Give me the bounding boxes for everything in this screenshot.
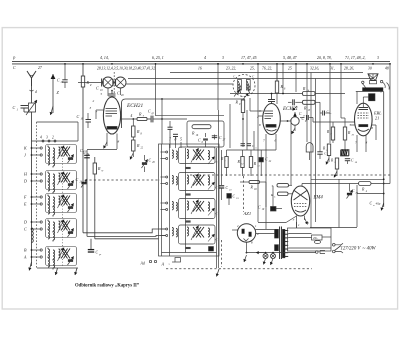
coil box band DC bbox=[46, 219, 77, 238]
voltage selector bbox=[312, 235, 323, 240]
tuning coil band FE bbox=[59, 196, 61, 205]
tube U3 EBL21 envelope bbox=[355, 103, 373, 136]
tube U1 grids bbox=[106, 108, 118, 110]
capacitor C22 bbox=[259, 158, 263, 162]
resistor R14 bbox=[303, 92, 316, 96]
resistor R13 bbox=[249, 157, 252, 168]
ground arrows under coil box bbox=[56, 268, 58, 275]
resistor R20 bbox=[94, 157, 96, 163]
mains switch bbox=[333, 244, 336, 247]
svg-text:♀: ♀ bbox=[168, 262, 170, 266]
capacitor C1 bbox=[21, 105, 29, 107]
IF transformer t1 core bbox=[193, 150, 201, 161]
capacitor dark block IF bbox=[209, 247, 214, 252]
IF transformer t4 winding bbox=[187, 227, 189, 236]
coil pair band DC bbox=[48, 221, 50, 230]
svg-text:EM4: EM4 bbox=[313, 196, 324, 201]
resistor R3 bbox=[241, 157, 244, 168]
svg-text:16: 16 bbox=[198, 66, 202, 70]
trimmer cap band BA bbox=[68, 259, 73, 261]
capacitor Cw bbox=[357, 193, 384, 195]
trimmer cap band KJ bbox=[68, 157, 73, 159]
trimmer cap band FE bbox=[68, 206, 73, 208]
capacitor trim mid bbox=[112, 79, 114, 86]
tube U3 grid cap bbox=[359, 107, 369, 109]
capacitor C17b bbox=[300, 117, 305, 119]
wire top bus line 1 bbox=[12, 60, 390, 62]
capacitor C4 bbox=[241, 143, 246, 145]
dashed chassis bottom bbox=[166, 268, 312, 270]
trimmer cap band DC bbox=[68, 231, 73, 233]
resistor R10a bbox=[331, 127, 334, 140]
svg-text:D: D bbox=[23, 220, 27, 225]
tube U2 cathode arc bbox=[267, 129, 277, 131]
wire main stem bbox=[31, 141, 33, 266]
IF transformer t4 core bbox=[193, 227, 201, 238]
wire route 2 bbox=[37, 267, 78, 269]
tube U5 electrodes bbox=[242, 229, 245, 234]
svg-text:R: R bbox=[136, 129, 140, 134]
svg-text:C: C bbox=[77, 114, 80, 119]
svg-text:A: A bbox=[23, 255, 27, 260]
coil box band KJ bbox=[46, 145, 77, 164]
svg-text:Odbiornik radiowy „Kaprys II”: Odbiornik radiowy „Kaprys II” bbox=[75, 284, 140, 289]
capacitor C17 coupling bbox=[147, 118, 151, 120]
tuning coil band BA bbox=[59, 249, 61, 258]
wire pin8 to column bbox=[87, 149, 117, 151]
IF strip box bbox=[159, 144, 220, 256]
svg-text:F: F bbox=[23, 195, 27, 200]
wire route L1 bbox=[83, 229, 166, 233]
svg-text:4: 4 bbox=[204, 56, 206, 60]
wire gang right to oscillator bbox=[126, 83, 234, 85]
wire heater line 2 bbox=[128, 78, 373, 80]
IF transformer t2 core bbox=[193, 175, 201, 186]
IF transformer t2 winding bbox=[187, 175, 189, 184]
svg-text:K: K bbox=[23, 146, 27, 151]
wire grid feed line bbox=[230, 93, 303, 95]
transformer secondary winding bbox=[282, 229, 285, 258]
ground arrows mains bbox=[264, 259, 266, 265]
tube U2 anode bbox=[266, 125, 276, 128]
ground arrow Z bbox=[52, 74, 54, 113]
wire route L3 bbox=[95, 238, 159, 240]
wire plate lead bbox=[121, 118, 137, 120]
speaker terminals bbox=[362, 81, 364, 83]
hatched capacitor under tube3 bbox=[341, 151, 349, 157]
wire route L2 bbox=[87, 235, 166, 238]
svg-text:d: d bbox=[35, 90, 37, 94]
svg-text:Ad: Ad bbox=[140, 262, 145, 266]
svg-text:3: 3 bbox=[377, 56, 379, 60]
svg-text:5: 5 bbox=[180, 138, 182, 142]
svg-text:AZ1: AZ1 bbox=[243, 211, 252, 216]
tube U5 AZ1 envelope bbox=[237, 224, 255, 242]
antenna bbox=[27, 71, 36, 86]
IF inner boxes bbox=[179, 147, 216, 164]
antenna coil on stem bbox=[32, 228, 34, 242]
resistor R19 bbox=[277, 184, 289, 187]
wire EM4 links bbox=[265, 182, 267, 207]
speaker magnet bar bbox=[363, 88, 384, 91]
resistor R9 bbox=[241, 100, 244, 113]
wire EM4 anode to R4 bbox=[301, 184, 303, 187]
wire tube2 plate bbox=[280, 120, 291, 122]
bus junction dots bbox=[82, 63, 84, 65]
svg-text:R: R bbox=[191, 131, 195, 136]
wire bus drop x330 bbox=[329, 64, 331, 113]
wire right verticals bbox=[306, 64, 308, 142]
ground arrow chassis bbox=[217, 269, 220, 277]
capacitor on stub 8 bbox=[173, 133, 178, 135]
capacitor Ck lamp bbox=[317, 151, 322, 153]
capacitor on stub 7 bbox=[168, 126, 173, 128]
capacitor C11 bbox=[288, 101, 292, 103]
svg-text:2: 2 bbox=[93, 99, 95, 103]
capacitor C6 bbox=[205, 133, 207, 137]
detector box bbox=[187, 121, 224, 147]
resistor R18 bbox=[249, 180, 260, 183]
tuning coil band HD bbox=[59, 173, 61, 182]
svg-text:1: 1 bbox=[224, 159, 225, 162]
mains plug bbox=[316, 251, 319, 254]
svg-text:gr: gr bbox=[99, 253, 101, 256]
tube U1 pin leads bbox=[96, 109, 104, 111]
svg-text:C: C bbox=[117, 91, 120, 96]
transformer primary winding bbox=[275, 229, 279, 238]
tube U4 cross bbox=[294, 190, 308, 200]
coil pair band KJ bbox=[48, 147, 50, 156]
tuning gang C10 rotor link bbox=[113, 72, 115, 94]
resistor Rg bbox=[82, 64, 84, 76]
dashed AVC line bbox=[85, 179, 160, 181]
wire bus drop x283 bbox=[282, 64, 284, 94]
capacitor C5 bbox=[247, 143, 252, 145]
IF transformer t2 secondary bbox=[208, 176, 210, 185]
coil pair band HD bbox=[48, 173, 50, 182]
wire column b bbox=[86, 150, 88, 236]
wire column a bbox=[82, 87, 84, 233]
svg-text:3: 3 bbox=[46, 136, 48, 140]
wire top bus line 2 bbox=[12, 63, 390, 65]
transformer core bbox=[279, 227, 281, 260]
wire box feeds bbox=[161, 99, 163, 144]
dashed chassis line bbox=[190, 174, 390, 176]
IF switch contacts bbox=[161, 151, 166, 153]
svg-text:ECH21: ECH21 bbox=[126, 103, 143, 109]
coil pair band FE bbox=[48, 196, 50, 205]
svg-text:2: 2 bbox=[52, 136, 54, 140]
hatched capacitor Ck bbox=[341, 150, 349, 156]
IF transformer t1 secondary bbox=[208, 151, 210, 160]
dial lamps wire bbox=[246, 252, 316, 254]
resistor Rk3 bbox=[327, 144, 330, 156]
wire R9 down bbox=[242, 119, 244, 147]
resistor R22 bbox=[132, 140, 135, 151]
tuning coil band KJ bbox=[59, 147, 61, 156]
IF mid caps bbox=[185, 166, 190, 168]
arrow left feed bbox=[256, 252, 264, 254]
tube U3 cathode bbox=[358, 129, 369, 131]
svg-text:R: R bbox=[97, 166, 101, 171]
tuning gang section C10 bbox=[103, 77, 114, 88]
tube U2 grids bbox=[265, 110, 274, 112]
IF transformer t1 arrows bbox=[191, 148, 199, 163]
wire AZ1 leads bbox=[256, 229, 275, 231]
IF transformer t4 arrows bbox=[191, 226, 199, 241]
wire osc to tube2 grid bbox=[249, 98, 251, 111]
wire grid line bbox=[313, 121, 355, 123]
svg-text:25: 25 bbox=[288, 66, 292, 70]
IF transformer t3 core bbox=[193, 201, 201, 212]
svg-text:7: 7 bbox=[263, 139, 265, 143]
coil pair band BA bbox=[48, 249, 50, 258]
potentiometer volume bbox=[291, 117, 299, 125]
resistor R4 bbox=[302, 183, 359, 185]
capacitor C27 bbox=[214, 135, 216, 140]
tube U1 ECH21 envelope bbox=[103, 97, 120, 134]
capacitor Cm bbox=[322, 111, 324, 116]
wire antenna lead bbox=[31, 86, 33, 103]
svg-text:30: 30 bbox=[368, 66, 372, 70]
output transformer bbox=[356, 92, 358, 105]
wire B+ vertical bbox=[383, 92, 385, 207]
coil box outline bbox=[37, 121, 79, 123]
svg-text:3: 3 bbox=[90, 106, 92, 110]
wire bottom right loop bbox=[310, 227, 357, 229]
coil L1 with core bbox=[29, 103, 36, 112]
svg-text:40μ: 40μ bbox=[376, 202, 381, 206]
capacitor C19 dark bbox=[227, 194, 232, 199]
wire right loop a bbox=[329, 113, 331, 143]
capacitor C26 bbox=[64, 64, 66, 80]
wire EM4 bottom bbox=[258, 222, 286, 224]
tube U1 anode bbox=[107, 127, 117, 130]
dashed chassis vertical bbox=[243, 176, 245, 212]
oscillator coil Lb bbox=[246, 80, 250, 91]
svg-text:127/220 V ∼ 40W: 127/220 V ∼ 40W bbox=[341, 247, 377, 252]
oscillator coil assembly dashed bbox=[233, 75, 255, 97]
svg-text:J: J bbox=[24, 153, 26, 158]
IF transformer t3 secondary bbox=[208, 202, 210, 211]
wire resistor row feed bbox=[227, 149, 277, 151]
wire row bus bbox=[32, 140, 79, 142]
resistor R16 bbox=[192, 125, 211, 129]
wire gang drops bbox=[107, 88, 109, 96]
wire right edge bbox=[389, 64, 391, 184]
svg-text:20–: 20– bbox=[313, 236, 318, 240]
svg-text:4: 4 bbox=[40, 136, 42, 140]
svg-text:C: C bbox=[24, 227, 27, 232]
svg-text:48: 48 bbox=[385, 66, 389, 70]
mains box bbox=[288, 228, 332, 251]
trimmer cap band HD bbox=[68, 183, 73, 185]
wire bus drop x258 bbox=[257, 64, 259, 222]
wire mid verticals bbox=[253, 131, 255, 150]
svg-text:C: C bbox=[76, 177, 79, 182]
svg-text:8: 8 bbox=[118, 140, 120, 144]
IF transformer t2 arrows bbox=[191, 174, 199, 189]
tube U1 top cap bbox=[111, 96, 113, 97]
IF transformer t1 winding bbox=[187, 150, 189, 159]
dial lamp bulb bbox=[306, 143, 313, 152]
capacitor C18 bbox=[347, 161, 349, 165]
wire em4 top link bbox=[295, 64, 297, 92]
svg-text:21: 21 bbox=[375, 116, 379, 121]
svg-text:C: C bbox=[96, 86, 99, 91]
tube U3 grids dashed bbox=[358, 112, 370, 114]
svg-text:R: R bbox=[136, 143, 140, 148]
resistor R10b bbox=[343, 127, 346, 140]
tuning coil band DC bbox=[59, 221, 61, 230]
coil box band HD bbox=[46, 171, 77, 190]
tube U4 EM4 envelope bbox=[291, 186, 309, 216]
resistor R5 bbox=[335, 158, 338, 169]
resistor R6 bbox=[276, 64, 278, 81]
coil box band BA bbox=[46, 247, 77, 266]
svg-text:E: E bbox=[23, 202, 27, 207]
trimmer C20a bbox=[142, 162, 147, 164]
svg-text:C: C bbox=[13, 105, 16, 110]
tube U2 top cap bbox=[271, 102, 273, 104]
resistor R21 bbox=[278, 192, 289, 195]
wire transformer taps bbox=[288, 233, 311, 235]
dial lamp 1 bbox=[263, 254, 268, 259]
wire agc long bbox=[126, 98, 246, 100]
IF transformer t4 secondary bbox=[208, 228, 210, 237]
coil box band FE bbox=[46, 194, 77, 213]
IF bottom wire bbox=[162, 252, 217, 254]
wire antenna to switch bbox=[31, 112, 33, 141]
svg-text:A: A bbox=[161, 262, 165, 267]
tube U1 grid corner wire bbox=[122, 99, 126, 128]
trimmer C20 bbox=[347, 192, 352, 194]
trimmer C24 bbox=[81, 181, 86, 183]
speaker frame bbox=[370, 81, 377, 84]
wire bus drop x341 bbox=[340, 64, 342, 118]
svg-text:R: R bbox=[235, 100, 239, 105]
wire screen feed bbox=[338, 179, 340, 227]
speaker cone bbox=[368, 74, 378, 81]
svg-text:w: w bbox=[102, 169, 104, 172]
tuning gang section C40 bbox=[115, 77, 126, 88]
svg-text:3: 3 bbox=[222, 56, 224, 60]
svg-text:4: 4 bbox=[131, 114, 133, 118]
IF transformer t3 winding bbox=[187, 201, 189, 210]
wire audio line bbox=[311, 178, 384, 180]
capacitor trim left bbox=[101, 79, 103, 87]
IF transformer t3 arrows bbox=[191, 200, 199, 215]
wire gang left bbox=[78, 82, 103, 84]
svg-text:D: D bbox=[23, 179, 27, 184]
dial lamp 2 bbox=[271, 254, 276, 259]
resistor R15 bbox=[303, 100, 316, 104]
ground arrow stem bottom bbox=[29, 262, 31, 271]
svg-text:16: 16 bbox=[370, 98, 374, 102]
wire tube2 to transformer bbox=[296, 222, 298, 228]
capacitor Cgr bottom bbox=[90, 239, 92, 250]
capacitor C23 bbox=[221, 150, 223, 185]
tube U2 ECH21 envelope bbox=[263, 104, 281, 135]
IF coupling coils bbox=[172, 150, 173, 158]
capacitor C27b bbox=[84, 154, 90, 156]
svg-text:R: R bbox=[138, 112, 142, 117]
IF strip verticals bbox=[161, 144, 163, 256]
resistor R8 bbox=[132, 119, 134, 126]
resistor R7 bbox=[137, 117, 147, 120]
oscillator trim arrows bbox=[234, 90, 240, 97]
coil box dotted divider bbox=[62, 147, 64, 266]
wire osc down bbox=[242, 95, 244, 97]
oscillator coil La bbox=[238, 80, 242, 91]
wire heater line 1 bbox=[170, 72, 363, 74]
resistor R2 bbox=[225, 157, 228, 168]
